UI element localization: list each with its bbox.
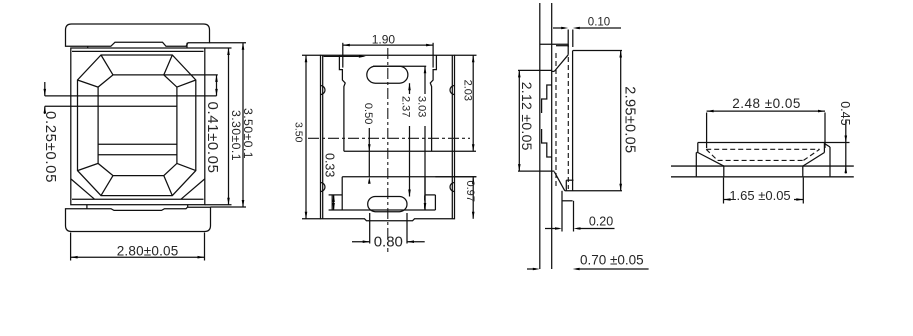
view4 left ear vertical	[695, 153, 697, 177]
view3 top ledge second line	[556, 45, 568, 47]
view4 seating plane line upper	[671, 165, 854, 167]
view1 reflector outer octagon	[78, 55, 196, 196]
view2 top pad left edge	[339, 55, 345, 151]
view2 top slot oval	[367, 66, 408, 83]
view1 octagon corner connector TL-b	[78, 80, 99, 87]
svg-text:3.50: 3.50	[293, 122, 305, 143]
svg-text:2.37: 2.37	[399, 96, 411, 117]
dim 0.70 line right	[576, 268, 648, 270]
svg-text:2.03: 2.03	[462, 80, 474, 101]
dim 3.03 line	[424, 66, 426, 94]
dim 2.37 line	[409, 83, 411, 94]
view2 bottom pad top edge with extension	[342, 176, 476, 178]
view2 horizontal centerline	[308, 137, 470, 139]
dim 0.41 line	[216, 75, 218, 96]
dim 0.97 extension	[435, 176, 476, 178]
view2 bottom pad side right	[424, 177, 426, 210]
view2 bottom pad side left	[341, 177, 343, 210]
view2 bottom slot oval	[368, 197, 407, 212]
view1 body inner line top	[72, 50, 204, 52]
view3 bottom wrap box side	[565, 180, 567, 191]
dim 0.10 line left	[553, 27, 565, 29]
dim 0.33 line	[333, 195, 335, 210]
svg-text:0.70 ±0.05: 0.70 ±0.05	[580, 253, 644, 268]
view3 hidden line inner right	[567, 57, 569, 189]
dim 0.80 extension right	[406, 213, 408, 244]
dim 3.50 extension line bottom	[211, 206, 247, 208]
dim 2.80 extension line left	[70, 233, 72, 261]
view2 side notch left upper	[321, 86, 326, 95]
view4 hidden cup rim line	[706, 148, 819, 150]
view1 octagon corner connector BL-b	[78, 163, 99, 170]
svg-text:0.33: 0.33	[323, 153, 337, 177]
dim 3.03 extension line along slot top	[373, 65, 426, 67]
dim 2.03 extension top	[455, 54, 477, 56]
dim 2.48 extension left	[706, 113, 708, 149]
dim 0.45 line	[845, 120, 847, 174]
dim 0.80 line left stub	[352, 241, 370, 243]
dim 0.70 line left stub	[527, 268, 536, 270]
view2 side notch right lower	[450, 183, 455, 192]
view2 bottom pad flap outer right	[434, 195, 436, 210]
view1 body outline	[71, 48, 205, 205]
view1 cup floor inner lower edge	[98, 143, 177, 145]
view1 octagon corner connector TR-a	[164, 55, 173, 75]
view2 inner edge line right	[451, 55, 453, 219]
view1 bottom tab tick right	[187, 205, 189, 207]
view4 seating plane line lower	[671, 176, 854, 178]
svg-text:2.48 ±0.05: 2.48 ±0.05	[732, 96, 801, 111]
dim 0.10 line right	[576, 27, 621, 29]
view4 solder tab right edge	[802, 166, 804, 177]
view1 bottom tab tick left	[86, 205, 88, 209]
dim 1.65 line right stub	[794, 199, 803, 201]
dim 1.65 extension right	[802, 178, 804, 204]
dim 1.90 line	[343, 44, 433, 46]
view2 bottom pad flap top left	[329, 194, 343, 196]
view4 body right edge	[823, 143, 825, 153]
view3 top electrode edge	[540, 43, 568, 45]
dim 1.90 extension right	[432, 43, 434, 68]
view2 bottom pad hidden line left	[333, 196, 335, 211]
svg-text:1.65 ±0.05: 1.65 ±0.05	[729, 188, 790, 203]
view3 electrode step bottom	[542, 129, 552, 157]
view1 cup floor upper edge with extension line	[45, 95, 217, 97]
dim 0.41 extension line	[164, 74, 218, 76]
view4 solder tab left edge	[723, 166, 725, 177]
view2 side notch right upper	[450, 86, 455, 95]
view3 bottom wrap horizontal	[562, 200, 573, 202]
dim 2.03 line	[472, 55, 474, 151]
view1 cup floor lower edge	[98, 154, 177, 156]
view2 inner edge line left	[322, 55, 324, 219]
view2 top pad bottom edge with extension	[344, 150, 476, 152]
view2 outer body rectangle with bottom protrusion	[321, 55, 455, 221]
svg-text:0.20: 0.20	[589, 215, 613, 229]
view2 side notch left lower	[321, 183, 326, 192]
view4 right ear connector	[824, 144, 830, 148]
dim 3.50 line	[242, 43, 244, 207]
dim 2.48 extension right	[824, 113, 826, 149]
view4 hidden cup wall left	[706, 149, 717, 160]
view3 top step vertical	[567, 44, 569, 55]
view4 body left edge	[697, 143, 699, 153]
view1 bottom electrode tab	[66, 207, 211, 231]
svg-text:1.90: 1.90	[372, 32, 396, 46]
svg-text:3.30±0.1: 3.30±0.1	[229, 110, 243, 161]
dim 2.80 line	[71, 256, 205, 258]
view3 body top edge with extension	[573, 50, 622, 52]
svg-text:0.50: 0.50	[362, 103, 374, 124]
view4 left ear connector	[696, 152, 698, 154]
dim 0.10 extension left	[567, 30, 569, 48]
view1 octagon corner connector TL-a	[101, 55, 113, 75]
view3 electrode step top	[542, 85, 552, 113]
view2 dim 3.50 line	[305, 55, 307, 219]
view3 bottom wrap vertical right	[573, 201, 575, 232]
dim 3.30 extension line bottom	[205, 204, 232, 206]
view3 electrode bottom edge	[518, 170, 554, 172]
dim 0.10 extension right	[572, 30, 574, 48]
view2 bottom pad flap outer left	[331, 195, 333, 210]
svg-text:2.80±0.05: 2.80±0.05	[117, 243, 179, 258]
view3 lead outer face line	[539, 3, 541, 269]
view4 body top edge with extension	[698, 142, 850, 144]
dim 0.20 line right	[577, 228, 614, 230]
dim 2.80 extension line right	[204, 233, 206, 261]
dim 2.12 line	[518, 70, 520, 171]
view2 bottom pad bottom edge	[329, 209, 436, 211]
view3 lead inner face line	[551, 3, 553, 269]
view1 cup floor inner upper edge with extension	[45, 105, 177, 107]
view3 body back face	[572, 51, 574, 191]
dim 1.65 extension left	[723, 178, 725, 204]
svg-text:0.41±0.05: 0.41±0.05	[204, 102, 221, 174]
view4 right chamfer	[803, 153, 825, 167]
dim 1.65 line left stub	[724, 199, 732, 201]
view3 bottom slant	[554, 172, 565, 191]
svg-text:0.45: 0.45	[838, 101, 852, 125]
dim 3.30 line	[228, 48, 230, 205]
dim 0.25 line upper	[44, 82, 46, 96]
dim 0.20 line left	[545, 228, 560, 230]
view2 dim 3.50 extension top	[302, 54, 321, 56]
view4 hidden cup floor line	[718, 159, 804, 161]
view1 reflector inner octagon	[98, 75, 177, 176]
view4 left chamfer	[698, 153, 724, 167]
dim 2.48 line	[707, 110, 825, 112]
dim 3.30 extension line top	[205, 47, 232, 49]
svg-text:2.95±0.05: 2.95±0.05	[621, 86, 637, 153]
view1 top electrode tab	[66, 24, 210, 46]
view2 bottom pad hidden line right	[424, 196, 426, 211]
view3 hidden line inner left	[555, 53, 557, 189]
view3 body bottom edge with extension	[565, 190, 622, 192]
dim 0.97 line	[472, 177, 474, 219]
view4 hidden cup wall right	[804, 149, 820, 160]
view2 bottom pad flap top right	[425, 194, 435, 196]
svg-text:3.03: 3.03	[415, 96, 427, 117]
dim 0.25 line lower	[44, 106, 46, 114]
view2 top pad right edge	[430, 55, 436, 151]
svg-text:0.25±0.05: 0.25±0.05	[42, 111, 59, 183]
view2 dim 3.50 extension bottom	[302, 218, 321, 220]
view3 bottom wrap box top	[566, 179, 573, 181]
view1 octagon corner connector BR-a	[164, 176, 173, 196]
view2 vertical centerline	[387, 48, 389, 252]
view1 octagon corner connector BR-b	[177, 163, 196, 170]
view1 body inner line bottom	[72, 198, 204, 200]
view1 top tab tick left	[87, 46, 89, 48]
svg-text:0.80: 0.80	[374, 233, 403, 250]
view3 slant base tick	[552, 70, 555, 72]
view3 bottom wrap vertical left	[561, 191, 563, 232]
view4 right ear vertical	[829, 147, 831, 177]
svg-text:3.50±0.1: 3.50±0.1	[241, 108, 255, 159]
svg-text:2.12 ±0.05: 2.12 ±0.05	[519, 82, 535, 151]
dim 0.80 extension left	[369, 213, 371, 244]
view2 pad inner edge arrow line	[324, 55, 359, 57]
dim 0.80 line right stub	[407, 241, 425, 243]
view1 octagon corner connector TR-b	[177, 80, 196, 87]
dim 2.95 line	[620, 51, 622, 191]
view3 top slant	[554, 55, 568, 72]
view1 top tab tick right	[186, 43, 188, 48]
view1 octagon corner connector BL-a	[101, 176, 113, 196]
svg-text:0.10: 0.10	[588, 16, 610, 28]
view1 body corner diagonal BL	[71, 179, 95, 199]
dim 0.50 line	[368, 128, 370, 177]
view1 body corner diagonal BR	[181, 179, 205, 199]
dim 1.90 extension left	[342, 43, 344, 68]
dim 3.50 extension line top	[210, 42, 247, 44]
dim 2.12 extension top	[518, 69, 552, 71]
svg-text:0.97: 0.97	[464, 181, 476, 202]
